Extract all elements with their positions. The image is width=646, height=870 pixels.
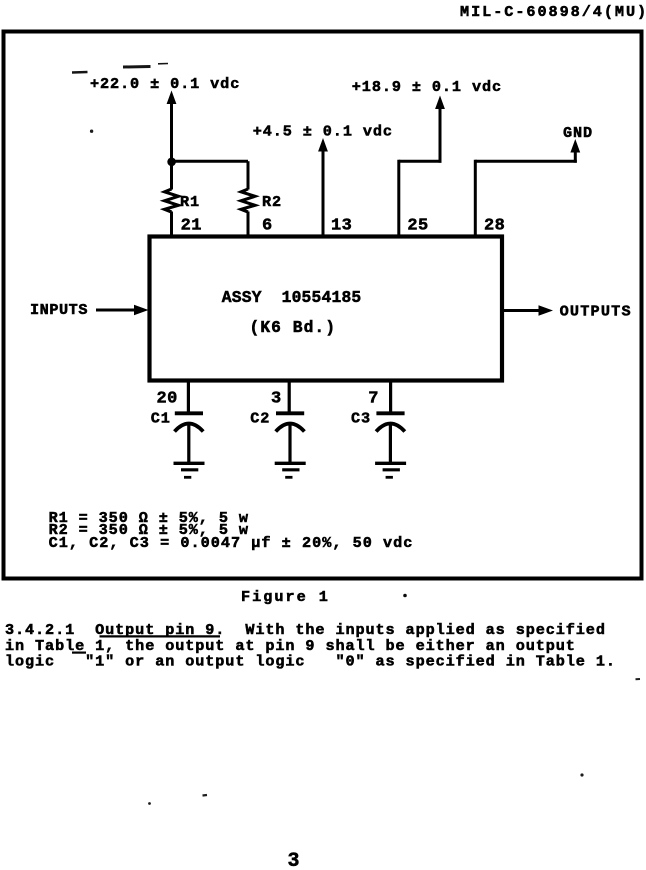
svg-text:Figure 1: Figure 1 <box>241 588 330 606</box>
wire: node A to R2 top (horizontal) <box>172 160 249 163</box>
svg-text:ASSY 10554185: ASSY 10554185 <box>222 288 362 307</box>
svg-text:25: 25 <box>407 217 428 236</box>
svg-text:+18.9 ± 0.1 vdc: +18.9 ± 0.1 vdc <box>352 78 502 96</box>
svg-text:logic "1" or an output logic: logic "1" or an output logic "0" as spec… <box>5 652 616 670</box>
stray underline mark under Table 1 <box>72 651 86 653</box>
svg-text:OUTPUTS: OUTPUTS <box>560 302 632 320</box>
svg-text:C3: C3 <box>351 409 371 427</box>
wire: R1 bottom lead to pin 21 <box>170 212 173 238</box>
node A: junction dot <box>167 158 176 167</box>
wire: +4.5 supply arrow down to pin 13 <box>318 138 328 237</box>
svg-text:C2: C2 <box>250 409 270 427</box>
wire: pin 20 lead down to C1 <box>187 381 190 414</box>
underline for Output pin 9 <box>100 635 221 637</box>
svg-text:3: 3 <box>288 850 300 870</box>
wire: INPUTS arrow into assembly <box>96 305 149 315</box>
ground symbol (C3) <box>375 463 406 477</box>
svg-text:13: 13 <box>331 217 352 236</box>
capacitor C2 <box>276 413 305 462</box>
svg-text:GND: GND <box>563 124 593 142</box>
scan specks lower page <box>636 678 641 680</box>
svg-text:C1: C1 <box>151 409 171 427</box>
wire: GND arrow, jog to pin 28 <box>475 139 580 237</box>
wire: OUTPUTS arrow out of assembly <box>502 305 553 315</box>
svg-text:MIL-C-60898/4(MU): MIL-C-60898/4(MU) <box>460 3 646 21</box>
figure outer frame (border) <box>4 32 642 579</box>
resistor R2 <box>241 189 255 212</box>
svg-text:21: 21 <box>181 217 202 236</box>
capacitor C1 <box>175 413 204 462</box>
wire: +18.9 supply arrow, jog to pin 25 <box>399 96 445 238</box>
wire: R2 bottom lead to pin 6 <box>247 212 250 238</box>
scan speck near +4.5 riser <box>90 130 93 133</box>
wire: R2 top lead <box>247 161 250 189</box>
capacitor C3 <box>376 413 405 462</box>
wire: +22.0 supply arrow down to node A <box>167 91 177 163</box>
svg-text:6: 6 <box>262 217 273 236</box>
scan smudge marks above +22.0 label <box>72 64 168 73</box>
resistor R1 <box>165 189 179 212</box>
svg-text:3: 3 <box>271 390 282 409</box>
svg-text:R2: R2 <box>262 193 282 211</box>
svg-text:INPUTS: INPUTS <box>30 301 88 319</box>
svg-text:R1: R1 <box>180 193 200 211</box>
wire: node A to R1 top lead <box>170 162 173 190</box>
svg-text:+22.0 ± 0.1 vdc: +22.0 ± 0.1 vdc <box>90 75 240 93</box>
scan speck after caption <box>403 594 407 598</box>
svg-text:20: 20 <box>157 390 178 409</box>
wire: pin 7 lead down to C3 <box>389 381 392 414</box>
wire: pin 3 lead down to C2 <box>288 381 291 414</box>
svg-text:7: 7 <box>368 390 379 409</box>
svg-text:C1, C2, C3 = 0.0047 μf ± 20%,: C1, C2, C3 = 0.0047 μf ± 20%, 50 vdc <box>49 534 414 552</box>
ground symbol (C2) <box>275 463 306 477</box>
assembly box ASSY 10554185 <box>150 237 503 381</box>
svg-text:28: 28 <box>484 217 505 236</box>
ground symbol (C1) <box>174 463 205 477</box>
svg-text:(K6 Bd.): (K6 Bd.) <box>250 318 337 337</box>
svg-text:+4.5 ± 0.1 vdc: +4.5 ± 0.1 vdc <box>253 122 393 140</box>
